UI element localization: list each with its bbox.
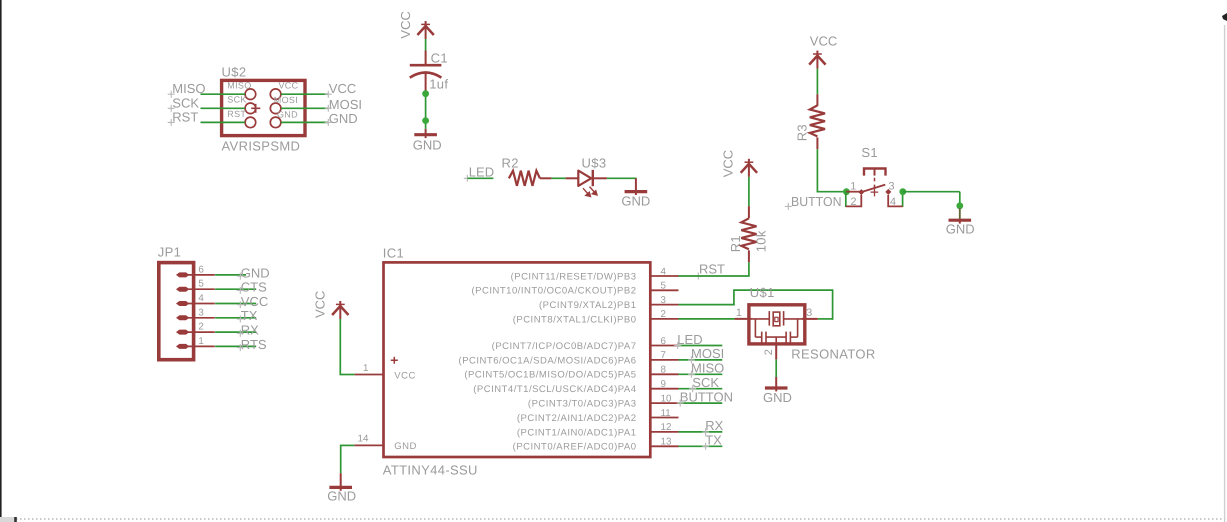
R1 pin stub bottom [748, 250, 750, 262]
wire net SCK into U$2 [201, 107, 246, 109]
wire VCC to C1 [425, 39, 427, 51]
svg-text:14: 14 [358, 434, 369, 445]
JP1 pin 6 lead [188, 274, 215, 276]
svg-text:(PCINT2/AIN1/ADC2)PA2: (PCINT2/AIN1/ADC2)PA2 [517, 413, 637, 424]
R3 pin stub top [816, 94, 818, 106]
IC1 pin 9 stub [650, 388, 678, 390]
U$1 pin 1 stub [735, 318, 752, 320]
IC1 origin cross [391, 357, 398, 364]
wire GND vertical [340, 445, 342, 474]
svg-text:R3: R3 [794, 124, 809, 141]
svg-text:(PCINT1/AIN0/ADC1)PA1: (PCINT1/AIN0/ADC1)PA1 [517, 427, 637, 438]
svg-text:RTS: RTS [241, 337, 267, 352]
ground below IC1 [329, 473, 352, 491]
svg-text:GND: GND [327, 488, 356, 503]
wire down to GND [959, 192, 961, 220]
wire net RX [679, 431, 723, 433]
wire net GND out of U$2 [281, 121, 328, 123]
S1 contact pin 3 [885, 189, 891, 195]
junction dot [956, 202, 963, 209]
U$2 pin circle left RST [245, 117, 256, 128]
wire up [733, 290, 735, 305]
svg-text:4: 4 [890, 196, 896, 208]
svg-text:(PCINT5/OC1B/MISO/DO/ADC5)PA5: (PCINT5/OC1B/MISO/DO/ADC5)PA5 [464, 370, 636, 381]
IC1 pin 1 stub [355, 374, 384, 376]
wire IC1 pin 2 to resonator pin 1 [679, 318, 735, 320]
wire net LED [679, 345, 723, 347]
wire net MOSI out of U$2 [281, 107, 328, 109]
JP1 pin 5 lead [188, 288, 215, 290]
resistor R1 [741, 218, 756, 249]
svg-text:2: 2 [661, 309, 666, 320]
IC1 pin 7 stub [650, 359, 678, 361]
LED U$3 triangle [578, 171, 591, 186]
wire to resonator pin 3 [818, 318, 834, 320]
svg-text:1uf: 1uf [429, 76, 448, 91]
wire to S1 pin 2 [845, 192, 847, 207]
IC1 pin 4 stub [650, 275, 678, 277]
wire R3 down [816, 149, 818, 192]
svg-text:GND: GND [329, 111, 358, 126]
svg-text:RST: RST [172, 109, 198, 124]
svg-text:11: 11 [661, 408, 671, 419]
capacitor C1 curved plate [410, 73, 442, 78]
JP1 pin 2 flag [177, 330, 188, 334]
IC1 pin 8 stub [650, 373, 678, 375]
wire JP1 pin 3 net TX [215, 317, 256, 319]
svg-text:GND: GND [763, 390, 792, 405]
svg-text:ATTINY44-SSU: ATTINY44-SSU [383, 462, 478, 477]
U$1 pin 3 stub [802, 318, 818, 320]
R2 pin stub right [540, 177, 552, 179]
svg-text:VCC: VCC [720, 150, 735, 177]
svg-text:TX: TX [241, 308, 258, 323]
U$2 origin cross [251, 104, 260, 113]
svg-text:VCC: VCC [394, 371, 416, 382]
wire net RST to IC1 pin 4 [678, 275, 750, 277]
window left border [0, 0, 2, 522]
wire net MISO into U$2 [201, 93, 246, 95]
svg-text:3: 3 [806, 307, 812, 319]
svg-text:RESONATOR: RESONATOR [791, 346, 875, 361]
S1 contact pin 1 [858, 189, 864, 195]
resistor R3 [810, 105, 825, 136]
U$2 pin circle right GND [270, 117, 281, 128]
wire net SCK [679, 388, 723, 390]
svg-text:(PCINT10/INT0/OC0A/CKOUT)PB2: (PCINT10/INT0/OC0A/CKOUT)PB2 [472, 286, 637, 297]
wire R2 to LED [551, 177, 565, 179]
JP1 pin 4 flag [177, 302, 188, 306]
IC1 pin 3 stub [650, 304, 678, 306]
svg-text:GND: GND [946, 221, 975, 236]
svg-text:LED: LED [469, 165, 494, 180]
junction dot [422, 90, 429, 97]
svg-text:VCC: VCC [398, 11, 413, 38]
svg-text:7: 7 [661, 350, 666, 361]
svg-text:12: 12 [661, 422, 672, 433]
wire to S1 pin 4 [902, 192, 904, 207]
junction dot at S1 pin 3/4 [899, 188, 906, 195]
capacitor C1 pin stub bottom [425, 74, 427, 92]
svg-text:4: 4 [661, 266, 667, 277]
svg-text:(PCINT7/ICP/OC0B/ADC7)PA7: (PCINT7/ICP/OC0B/ADC7)PA7 [492, 341, 637, 352]
svg-text:3: 3 [661, 295, 667, 306]
svg-text:AVRISPSMD: AVRISPSMD [222, 139, 301, 154]
svg-text:VCC: VCC [279, 81, 299, 91]
wire JP1 pin 4 net VCC [215, 303, 256, 305]
svg-text:1: 1 [198, 336, 203, 347]
JP1 pin 1 flag [177, 345, 188, 349]
svg-text:8: 8 [661, 365, 667, 376]
U$3 cathode stub [593, 177, 607, 179]
svg-text:(PCINT8/XTAL1/CLKI)PB0: (PCINT8/XTAL1/CLKI)PB0 [513, 314, 637, 325]
wire VCC to R3 [816, 69, 818, 95]
U$2 pin circle left SCK [245, 103, 256, 114]
svg-text:RX: RX [241, 323, 259, 338]
svg-text:GND: GND [621, 194, 650, 209]
IC1 body [384, 262, 651, 457]
IC1 pin 13 stub [650, 445, 678, 447]
svg-text:6: 6 [661, 336, 667, 347]
LED U$3 anode stub [566, 177, 579, 179]
capacitor C1 top plate [410, 64, 442, 67]
VCC symbol above R1 [741, 159, 757, 177]
wire IC1 pin 14 to GND [341, 444, 355, 446]
U$2 pin circle right VCC [270, 89, 281, 100]
wire net LED [468, 177, 494, 179]
svg-text:BUTTON: BUTTON [791, 194, 842, 209]
IC1 pin 12 stub [650, 431, 678, 433]
ground right of S1 [949, 220, 972, 224]
svg-text:SCK: SCK [692, 375, 719, 390]
svg-text:SCK: SCK [172, 95, 199, 110]
svg-text:U$3: U$3 [582, 155, 607, 170]
svg-text:MISO: MISO [227, 81, 251, 91]
svg-text:3: 3 [198, 307, 204, 318]
VCC symbol at IC1 [332, 301, 348, 319]
svg-text:3: 3 [889, 180, 895, 192]
U$2 pin circle left MISO [245, 89, 256, 100]
svg-text:GND: GND [241, 265, 270, 280]
bottom-left scrollbar corner box [0, 517, 15, 522]
svg-text:C1: C1 [431, 51, 448, 66]
resonator internals [752, 311, 803, 344]
JP1 pin 1 lead [188, 345, 215, 347]
wire S1 to GND [903, 191, 960, 193]
JP1 pin 3 lead [188, 317, 215, 319]
ground below C1 [414, 129, 437, 138]
wire resonator pin 2 to GND [775, 359, 777, 377]
wire VCC vertical [339, 319, 341, 375]
VCC symbol above C1 [417, 21, 433, 39]
IC1 pin 10 stub [650, 402, 678, 404]
button S1 actuator bracket [864, 169, 886, 189]
LED U$3 emission arrows [583, 187, 597, 197]
svg-text:2: 2 [763, 349, 775, 355]
svg-text:GND: GND [413, 137, 442, 152]
svg-text:(PCINT11/RESET/DW)PB3: (PCINT11/RESET/DW)PB3 [511, 271, 637, 282]
svg-text:10k: 10k [754, 230, 769, 252]
svg-text:2: 2 [198, 322, 203, 333]
JP1 pin 2 lead [188, 331, 215, 333]
ground below resonator [765, 377, 788, 391]
capacitor C1 pin stub top [425, 51, 427, 66]
svg-text:13: 13 [661, 437, 672, 448]
svg-text:1: 1 [850, 180, 856, 192]
svg-text:10: 10 [661, 393, 672, 404]
wire net MISO [679, 373, 723, 375]
junction dot [422, 117, 429, 124]
svg-text:TX: TX [705, 433, 722, 448]
JP1 pin 6 flag [177, 273, 188, 277]
svg-text:VCC: VCC [312, 291, 327, 318]
IC1 pin 2 stub [650, 318, 678, 320]
wire JP1 pin 5 net CTS [215, 288, 256, 290]
svg-text:GND: GND [394, 441, 417, 452]
svg-text:(PCINT0/AREF/ADC0)PA0: (PCINT0/AREF/ADC0)PA0 [513, 442, 637, 453]
wire JP1 pin 2 net RX [215, 331, 256, 333]
svg-text:(PCINT9/XTAL2)PB1: (PCINT9/XTAL2)PB1 [539, 300, 637, 311]
IC1 pin 11 stub [650, 417, 678, 419]
svg-text:RST: RST [699, 262, 725, 277]
button S1 lever [861, 185, 885, 193]
svg-text:S1: S1 [861, 145, 878, 160]
svg-text:MISO: MISO [691, 361, 724, 376]
svg-text:U$2: U$2 [222, 65, 247, 80]
wire JP1 pin 1 net RTS [215, 345, 256, 347]
bottom scrollbar dotted line [16, 518, 1227, 520]
svg-text:CTS: CTS [241, 280, 267, 295]
svg-text:(PCINT3/T0/ADC3)PA3: (PCINT3/T0/ADC3)PA3 [528, 399, 637, 410]
svg-text:BUTTON: BUTTON [680, 389, 733, 404]
wire VCC to IC1 pin 1 [340, 374, 354, 376]
top-right window mark [1222, 13, 1227, 21]
svg-text:LED: LED [677, 332, 702, 347]
svg-text:SCK: SCK [227, 95, 246, 105]
wire IC1 pin 3 toward resonator [679, 304, 735, 306]
svg-text:5: 5 [661, 281, 667, 292]
svg-text:JP1: JP1 [158, 244, 181, 259]
svg-text:U$1: U$1 [750, 285, 775, 300]
svg-text:RX: RX [705, 418, 723, 433]
ground right of LED [625, 178, 648, 195]
svg-text:GND: GND [277, 109, 298, 119]
IC1 pin 14 stub [354, 444, 383, 446]
resistor R2 [509, 171, 540, 186]
wire to button S1 [817, 191, 847, 193]
svg-text:6: 6 [198, 264, 204, 275]
svg-text:4: 4 [198, 293, 204, 304]
wire across above resonator [733, 289, 833, 291]
svg-text:1: 1 [363, 363, 368, 374]
svg-text:(PCINT4/T1/SCL/USCK/ADC4)PA4: (PCINT4/T1/SCL/USCK/ADC4)PA4 [473, 384, 636, 395]
wire net MOSI [679, 359, 723, 361]
U$1 pin 2 stub [775, 344, 777, 359]
JP1 pin 3 flag [177, 316, 188, 320]
wire net TX [679, 445, 723, 447]
svg-text:VCC: VCC [329, 81, 356, 96]
IC1 pin 6 stub [650, 345, 678, 347]
wire R1 to RST net [748, 262, 750, 276]
LED U$3 cathode bar [592, 170, 594, 186]
VCC symbol above R3 [809, 51, 825, 69]
R3 pin stub bottom [816, 137, 818, 149]
S1 pin 1 stub [846, 191, 861, 193]
svg-text:R2: R2 [502, 155, 519, 170]
junction dot at S1 pin 1/2 [843, 188, 850, 195]
svg-text:2: 2 [851, 196, 857, 208]
U$2 pin circle right MOSI [270, 103, 281, 114]
JP1 pin 4 lead [188, 303, 215, 305]
wire net VCC out of U$2 [281, 93, 328, 95]
svg-text:5: 5 [198, 279, 204, 290]
wire VCC to R1 [748, 177, 750, 206]
R1 pin stub top [748, 206, 750, 218]
svg-text:VCC: VCC [810, 33, 837, 48]
svg-text:MOSI: MOSI [274, 95, 298, 105]
svg-text:RST: RST [227, 109, 246, 119]
svg-text:1: 1 [736, 307, 742, 319]
IC1 pin 5 stub [650, 289, 678, 291]
JP1 pin 5 flag [177, 287, 188, 291]
svg-text:(PCINT6/OC1A/SDA/MOSI/ADC6)PA6: (PCINT6/OC1A/SDA/MOSI/ADC6)PA6 [459, 355, 637, 366]
svg-text:MOSI: MOSI [329, 97, 362, 112]
connector JP1 body [159, 263, 194, 360]
right window edge line [1224, 25, 1226, 522]
resonator U$1 body [749, 305, 805, 344]
svg-text:MOSI: MOSI [691, 346, 724, 361]
wire net RST into U$2 [201, 121, 246, 123]
connector U$2 AVRISPSMD body [222, 80, 305, 135]
svg-text:MISO: MISO [172, 81, 205, 96]
wire net BUTTON [679, 402, 723, 404]
wire LED to GND [607, 177, 637, 179]
wire down right of resonator [832, 290, 834, 320]
svg-text:R1: R1 [728, 235, 743, 252]
svg-text:9: 9 [661, 379, 666, 390]
S1 origin cross [871, 186, 879, 197]
wire C1 to GND [425, 92, 427, 129]
svg-text:VCC: VCC [241, 294, 268, 309]
svg-text:IC1: IC1 [383, 245, 404, 260]
wire JP1 pin 6 net GND [215, 274, 246, 276]
